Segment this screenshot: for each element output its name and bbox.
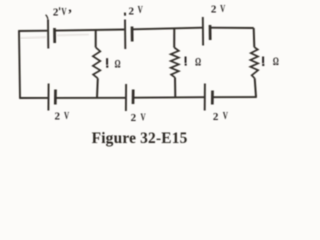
resistor R2 (1 ohm) zigzag bbox=[171, 48, 179, 78]
wire: bottom rail segment E (bottom-right corner to battery 6) bbox=[213, 96, 256, 98]
faint scan ghost smudge under top rail (right of battery 1) bbox=[58, 33, 88, 36]
battery (2 V) bottom-right : short thick plate bbox=[211, 91, 214, 105]
resistor R1 (1 ohm) : bottom lead wire bbox=[96, 78, 99, 98]
resistor R3 (1 ohm) zigzag, right edge bbox=[250, 47, 258, 78]
label 1 ohm (resistor R3) : digit drawn as bar + dot bbox=[262, 57, 264, 64]
resistor R1 (1 ohm) : top lead wire bbox=[95, 30, 97, 47]
caption: Figure 32-E15 bbox=[92, 130, 188, 147]
battery (2 V) top-middle : short thick plate bbox=[131, 27, 134, 42]
stray tick between 2 and V bbox=[59, 7, 60, 10]
wire: bottom rail segment G (battery 4 to battery 5) bbox=[56, 97, 125, 99]
wire: bottom rail segment H (bottom-left corner to battery 4) bbox=[19, 97, 48, 99]
svg-text:Ω: Ω bbox=[273, 55, 279, 68]
svg-text:2: 2 bbox=[131, 112, 137, 124]
svg-text:V: V bbox=[64, 111, 69, 123]
battery (2 V) top-right : short thick plate bbox=[209, 25, 212, 40]
battery (2 V) top-left : long plate bbox=[47, 20, 49, 49]
battery (2 V) bottom-middle : long plate bbox=[125, 84, 127, 111]
wire: top rail segment D (battery 3 to top-right corner) bbox=[211, 27, 254, 29]
battery (2 V) bottom-middle : short thick plate bbox=[132, 90, 135, 105]
wire: top rail segment C (battery 2 to battery 3) bbox=[133, 28, 202, 30]
svg-text:V: V bbox=[223, 111, 228, 123]
wire: top rail segment B (battery 1 to battery 2) bbox=[55, 30, 124, 31]
wire: right edge upper (corner down to resistor 3) bbox=[253, 28, 256, 47]
svg-text:2: 2 bbox=[211, 4, 217, 16]
battery (2 V) bottom-left : short thick plate bbox=[54, 90, 57, 105]
svg-text:V: V bbox=[138, 5, 143, 17]
svg-text:V: V bbox=[220, 3, 225, 15]
faint scan ghost smudge under top rail (left) bbox=[21, 37, 45, 38]
resistor R1 (1 ohm) zigzag bbox=[93, 47, 100, 78]
svg-text:Figure 32-E15: Figure 32-E15 bbox=[92, 130, 188, 147]
battery (2 V) top-right : long plate bbox=[202, 17, 204, 46]
speck above battery 2 long plate bbox=[124, 13, 126, 16]
resistor R2 (1 ohm) : bottom lead wire bbox=[174, 78, 176, 98]
wire: left edge bbox=[19, 31, 20, 98]
svg-text:2: 2 bbox=[213, 111, 219, 123]
wire: right edge lower (resistor 3 to bottom-right corner) bbox=[255, 78, 256, 97]
svg-text:2: 2 bbox=[53, 7, 59, 19]
resistor R2 (1 ohm) : top lead wire bbox=[173, 28, 175, 47]
svg-text:2: 2 bbox=[55, 111, 61, 123]
stray hook mark at top of battery 1 plate bbox=[46, 15, 48, 19]
wire: top rail segment A (top-left corner to battery 1) bbox=[18, 30, 47, 32]
paper background bbox=[0, 0, 292, 160]
label 1 ohm (resistor R1) : digit drawn as bar + dot bbox=[106, 58, 108, 65]
svg-text:Ω: Ω bbox=[115, 58, 121, 71]
battery (2 V) top-left : short thick plate bbox=[53, 28, 56, 43]
svg-text:V: V bbox=[61, 7, 66, 19]
svg-text:2: 2 bbox=[129, 5, 135, 17]
label 1 ohm (resistor R2) : digit drawn as bar + dot bbox=[185, 57, 187, 64]
battery (2 V) top-middle : long plate bbox=[124, 20, 126, 50]
svg-text:V: V bbox=[141, 112, 146, 124]
svg-text:Ω: Ω bbox=[195, 56, 201, 69]
svg-text:,: , bbox=[68, 0, 72, 15]
battery (2 V) bottom-left : long plate bbox=[47, 84, 49, 111]
wire: bottom rail segment F (battery 5 to battery 6) bbox=[134, 96, 204, 99]
battery (2 V) bottom-right : long plate bbox=[204, 84, 206, 111]
